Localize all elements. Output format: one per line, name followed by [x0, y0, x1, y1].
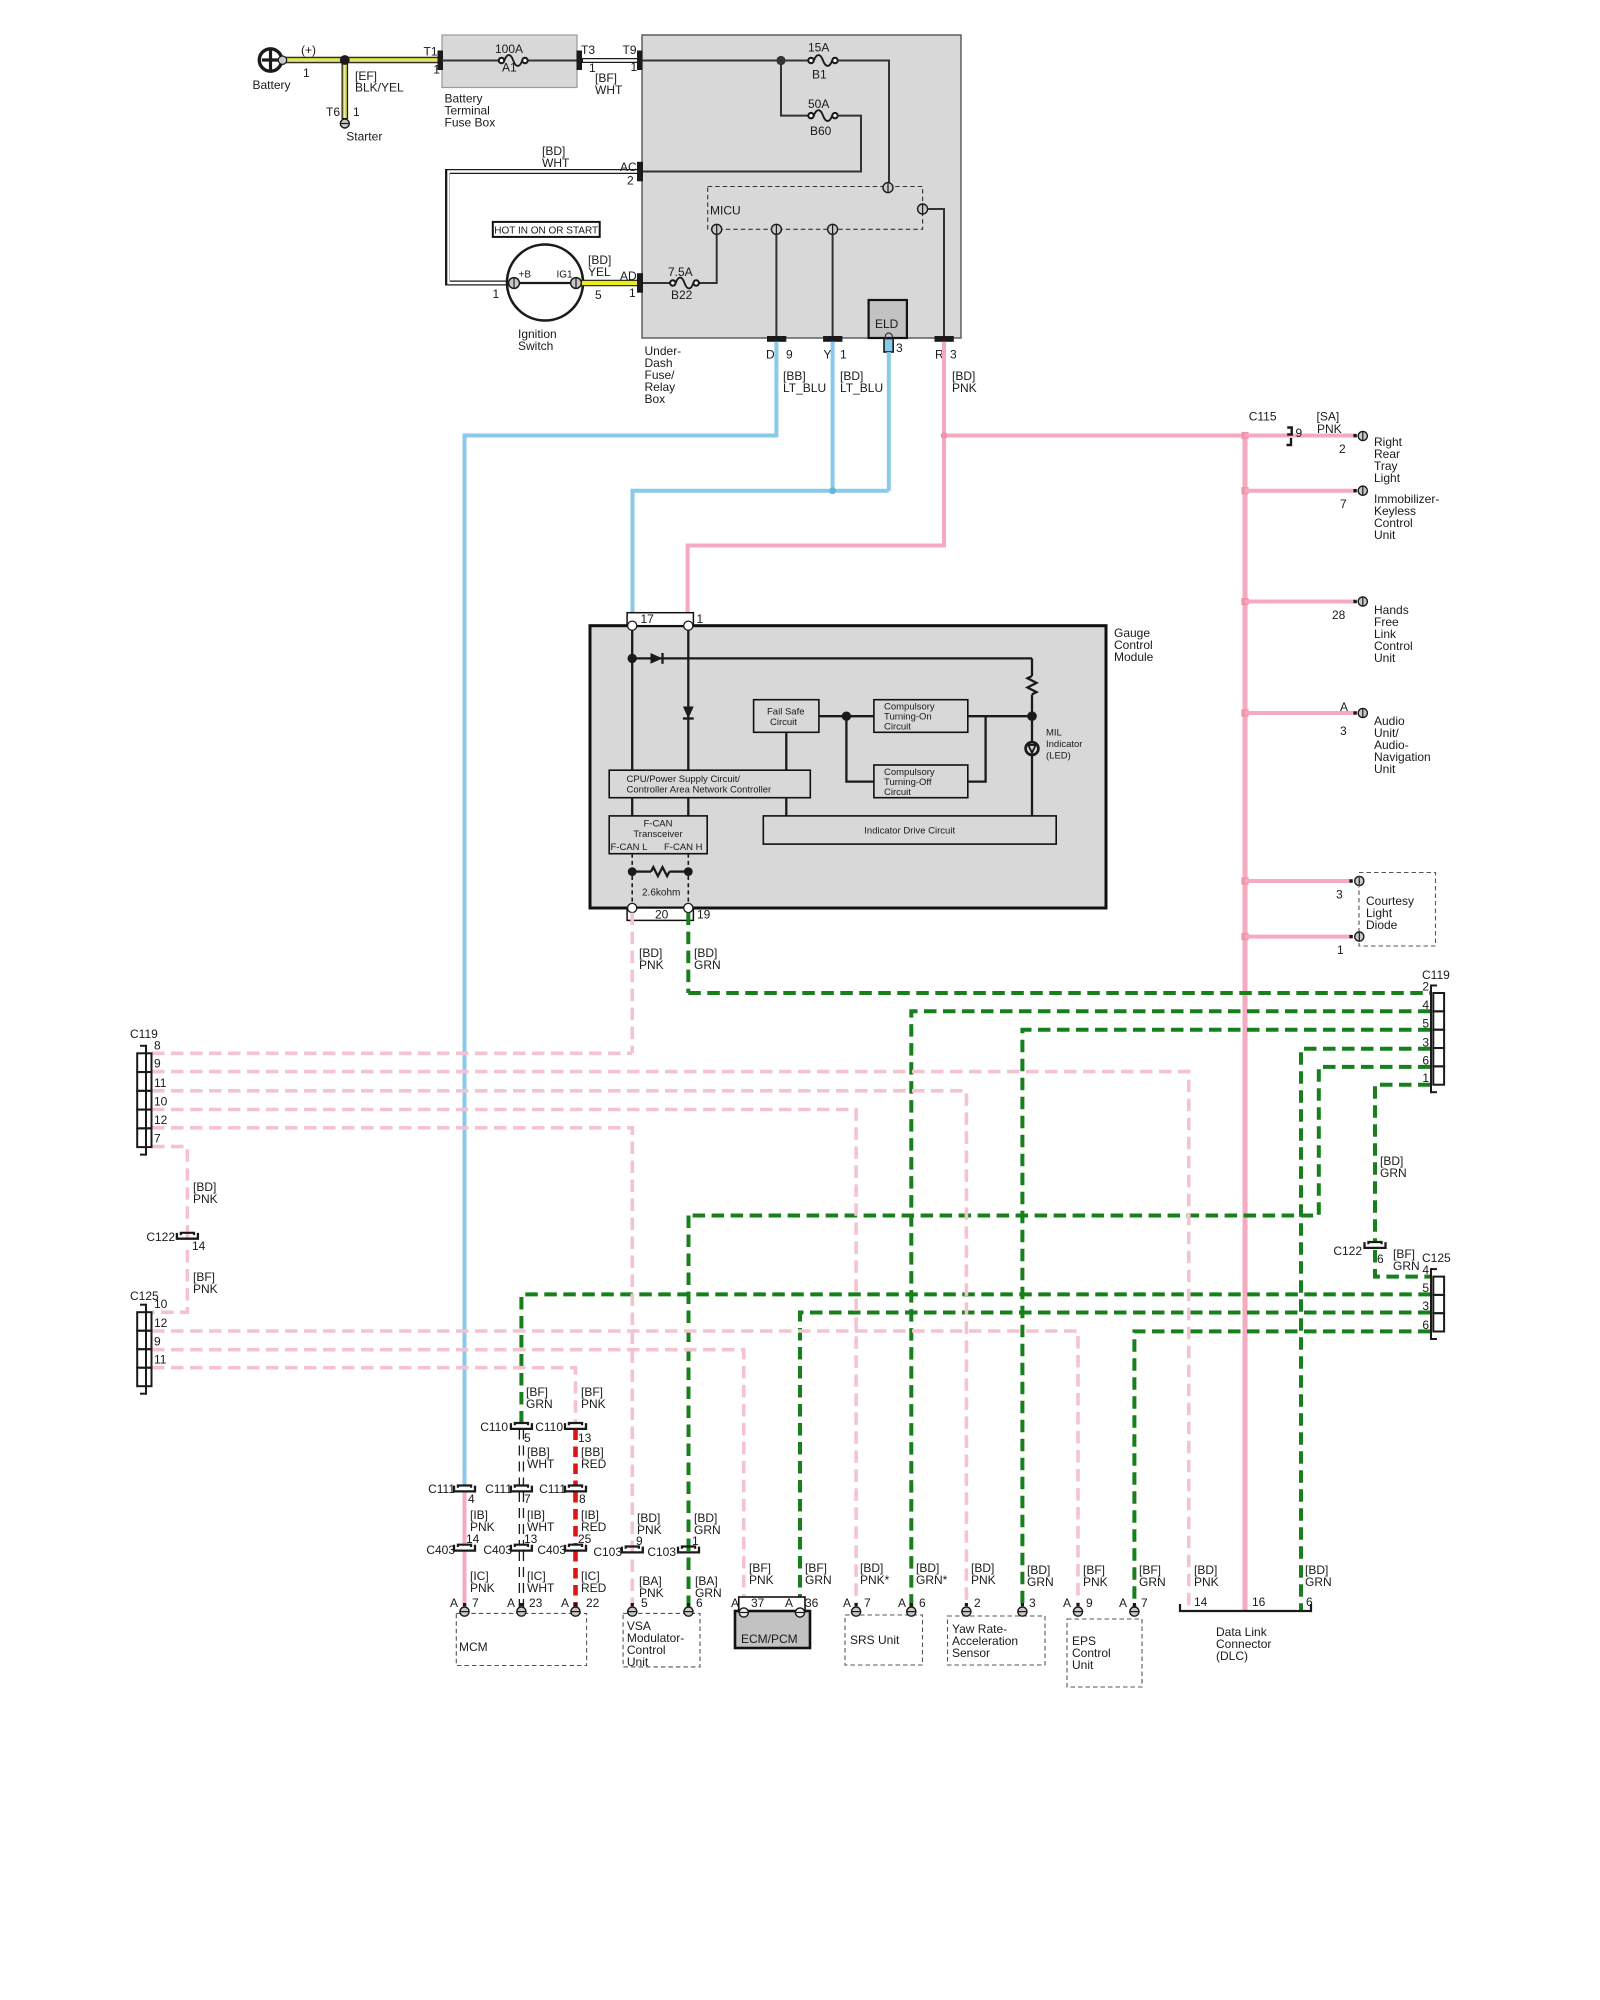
wire gauge pin 20 [BD] PNK dashed: [630, 913, 634, 1053]
wire T9 to 15A fuse: [642, 60, 809, 62]
wire R3 branch to pink bus: [944, 434, 1245, 438]
VSA terminal 5: [631, 1603, 634, 1606]
svg-text:WHT: WHT: [595, 83, 623, 97]
wire to courtesy light diode pin 1: [1245, 935, 1352, 939]
wire C110 5 to C125 pin 5 [BF] GRN: [521, 1294, 1430, 1423]
svg-text:C122: C122: [146, 1230, 175, 1244]
svg-text:5: 5: [1422, 1281, 1429, 1295]
svg-text:Box: Box: [645, 392, 666, 406]
junction pin17 diode: [628, 654, 637, 663]
connector C103 pin 9: [622, 1547, 643, 1553]
svg-text:A1: A1: [502, 61, 517, 75]
svg-text:AD: AD: [620, 269, 637, 283]
yaw terminal 3: [1021, 1603, 1024, 1606]
svg-text:1: 1: [697, 612, 704, 626]
svg-text:PNK: PNK: [1194, 1575, 1219, 1589]
connector C115 pin 9 [SA] PNK: [1287, 428, 1292, 435]
connector C403 pin 13: [511, 1545, 532, 1551]
wire Y1 [BD] LT_BLU: [831, 342, 835, 491]
svg-text:6: 6: [1306, 1595, 1313, 1609]
svg-text:8: 8: [154, 1038, 161, 1052]
wire AC to ignition switch [BD] WHT: [448, 172, 644, 284]
svg-text:PNK: PNK: [1317, 422, 1342, 436]
svg-text:5: 5: [524, 1431, 531, 1445]
terminal hands free pin 28: [1353, 600, 1356, 603]
svg-text:50A: 50A: [808, 97, 829, 111]
svg-text:Battery: Battery: [253, 78, 291, 92]
svg-text:4: 4: [468, 1492, 475, 1506]
wire CPU to indicator drive circuit: [785, 798, 787, 816]
svg-text:9: 9: [154, 1335, 161, 1349]
SRS terminal A6: [910, 1603, 913, 1606]
svg-text:GRN: GRN: [805, 1573, 832, 1587]
SRS terminal A7: [855, 1603, 858, 1606]
wire pin17 to CPU: [631, 630, 633, 770]
wire node to compulsory-off: [846, 716, 874, 781]
svg-text:C103: C103: [647, 1545, 676, 1559]
svg-text:3: 3: [1029, 1596, 1036, 1610]
connector R pin 3: [935, 336, 954, 342]
svg-text:C110: C110: [535, 1420, 563, 1434]
wire C111 4 to C403 14 [IB] PNK: [463, 1492, 467, 1546]
svg-text:+B: +B: [519, 270, 532, 281]
svg-text:1: 1: [840, 348, 847, 362]
pink bus vertical [BD] PNK: [1243, 436, 1248, 1612]
svg-text:B22: B22: [671, 288, 693, 302]
svg-text:A: A: [561, 1596, 569, 1610]
svg-text:B1: B1: [812, 68, 827, 82]
wire pin1 to CPU: [687, 630, 689, 770]
svg-text:PNK: PNK: [193, 1282, 218, 1296]
svg-text:2: 2: [1422, 980, 1429, 994]
terminal courtesy pin 1: [1349, 935, 1352, 938]
svg-text:HOT IN ON OR START: HOT IN ON OR START: [494, 225, 598, 236]
MCM unit box: [456, 1613, 586, 1665]
svg-text:MICU: MICU: [710, 204, 741, 218]
svg-text:GRN: GRN: [1305, 1575, 1332, 1589]
svg-text:C103: C103: [593, 1545, 622, 1559]
wire C119 pin 11 to yaw sensor 2 [BD] PNK: [152, 1091, 966, 1616]
MCM terminal A7: [463, 1603, 466, 1606]
compulsory turning-on circuit box: [874, 700, 968, 733]
svg-text:F-CAN L: F-CAN L: [611, 842, 648, 853]
connector T1: [438, 51, 444, 71]
svg-text:T9: T9: [623, 43, 637, 57]
svg-text:3: 3: [950, 348, 957, 362]
svg-text:GRN*: GRN*: [916, 1573, 948, 1587]
MCM terminal A22: [574, 1603, 577, 1606]
svg-text:9: 9: [1086, 1596, 1093, 1610]
gauge bottom connector pins 20 and 19: [627, 908, 693, 920]
svg-text:SRS Unit: SRS Unit: [850, 1633, 900, 1647]
junction at B1/B60 branch: [776, 56, 785, 65]
svg-text:9: 9: [786, 348, 793, 362]
svg-text:PNK: PNK: [470, 1581, 495, 1595]
svg-text:PNK*: PNK*: [860, 1573, 890, 1587]
wire CPU to F-CAN H: [687, 798, 689, 816]
svg-text:36: 36: [805, 1596, 819, 1610]
svg-text:WHT: WHT: [542, 156, 570, 170]
wire C403 13 to MCM A23 [IC] WHT: [519, 1551, 524, 1612]
svg-text:4: 4: [1422, 1263, 1429, 1277]
wire C119 pin 6 to green bus: [689, 1067, 1431, 1216]
wire ECM A36 to C125 pin 3 [BF] GRN: [800, 1313, 1431, 1610]
svg-text:A: A: [450, 1596, 458, 1610]
svg-text:Indicator: Indicator: [1046, 739, 1082, 750]
wire CPU to F-CAN L: [631, 798, 633, 816]
wire fail safe to compulsory-on: [819, 715, 874, 717]
svg-text:C110: C110: [480, 1420, 508, 1434]
svg-text:22: 22: [586, 1596, 600, 1610]
svg-text:A: A: [1340, 700, 1348, 714]
wire C119 pin 12 to C103 9 / VSA 5 [BD] PNK [BA] PNK: [152, 1128, 632, 1612]
svg-text:MCM: MCM: [459, 1640, 488, 1654]
svg-text:Unit: Unit: [1374, 528, 1396, 542]
svg-text:25: 25: [578, 1532, 592, 1546]
svg-text:4: 4: [1422, 998, 1429, 1012]
ECM terminal A36: [795, 1608, 804, 1617]
svg-text:1: 1: [1422, 1071, 1429, 1085]
wire branch to 50A: [781, 61, 809, 116]
wire MICU to connector D: [775, 235, 777, 337]
svg-text:YEL: YEL: [588, 265, 611, 279]
fuse A1 100A: [442, 60, 499, 62]
wire diode to MIL branch: [632, 657, 1032, 659]
svg-text:1: 1: [493, 287, 500, 301]
compulsory turning-off circuit box: [874, 765, 968, 798]
svg-text:Diode: Diode: [1366, 918, 1398, 932]
svg-text:13: 13: [524, 1532, 538, 1546]
svg-text:7: 7: [864, 1596, 871, 1610]
svg-text:5: 5: [641, 1596, 648, 1610]
resistor R1 vertical: [1031, 658, 1033, 676]
svg-text:7: 7: [472, 1596, 479, 1610]
svg-text:Controller Area Network Contro: Controller Area Network Controller: [627, 784, 772, 795]
svg-text:Unit: Unit: [627, 1655, 649, 1669]
svg-text:3: 3: [1422, 1299, 1429, 1313]
wire EPS A7 to C125 pin 6 [BF] GRN: [1134, 1331, 1430, 1616]
svg-text:A: A: [731, 1596, 739, 1610]
svg-text:10: 10: [154, 1297, 168, 1311]
wire AD to 7.5A fuse to MICU: [643, 282, 670, 284]
junction battery/starter: [340, 55, 350, 65]
wire IG1 to AD [BD] YEL: [581, 280, 642, 287]
svg-text:F-CAN H: F-CAN H: [664, 842, 703, 853]
svg-text:A: A: [898, 1596, 906, 1610]
svg-text:(LED): (LED): [1046, 751, 1071, 762]
svg-text:RED: RED: [581, 1581, 607, 1595]
wire fail safe to CPU: [785, 732, 787, 770]
svg-text:1: 1: [631, 60, 638, 74]
wire to audio unit: [1245, 711, 1357, 715]
wire gauge pin 19 [BD] GRN dashed: [686, 913, 690, 993]
connector Y pin 1: [823, 336, 842, 342]
svg-text:Fail Safe: Fail Safe: [767, 707, 805, 718]
svg-text:MIL: MIL: [1046, 728, 1062, 739]
wire C119 pin 4 to SRS A6: [911, 1011, 1430, 1616]
wire C111 8 to C403 25 [IB] RED: [573, 1492, 578, 1546]
svg-text:2: 2: [974, 1596, 981, 1610]
svg-text:1: 1: [629, 286, 636, 300]
svg-text:Y: Y: [824, 348, 832, 362]
svg-text:20: 20: [655, 908, 669, 922]
EPS terminal A9: [1076, 1603, 1079, 1606]
svg-text:T6: T6: [326, 105, 340, 119]
svg-text:13: 13: [578, 1431, 592, 1445]
EPS terminal A7: [1133, 1603, 1136, 1606]
svg-text:C111: C111: [539, 1482, 566, 1496]
svg-text:Sensor: Sensor: [952, 1646, 990, 1660]
wire junction to MIL LED: [1031, 716, 1033, 742]
svg-text:LT_BLU: LT_BLU: [840, 381, 883, 395]
gauge control module box: [590, 626, 1106, 908]
courtesy light diode box: [1359, 873, 1436, 947]
svg-text:A: A: [1119, 1596, 1127, 1610]
wire ELD3 LT_BLU: [887, 352, 891, 491]
svg-text:12: 12: [154, 1113, 168, 1127]
svg-text:D: D: [766, 348, 775, 362]
svg-text:1: 1: [692, 1534, 699, 1548]
connector C111 pin 4: [454, 1486, 475, 1492]
wire MICU to connector Y: [832, 235, 834, 337]
connector C122 pin 14: [177, 1233, 198, 1239]
connector AD pin 1: [637, 273, 643, 293]
svg-text:RED: RED: [581, 1457, 607, 1471]
wire LT_BLU to gauge pin 17: [633, 491, 889, 621]
wire C111 7 to C403 13 [IB] WHT: [519, 1492, 524, 1546]
svg-text:GRN: GRN: [1139, 1575, 1166, 1589]
connector D pin 9: [767, 336, 786, 342]
wire green bus to C103 1 / VSA 6 [BD] GRN: [687, 1216, 691, 1612]
MICU terminal to D: [771, 224, 781, 234]
wire C119 pin 8 to gauge pin 20: [152, 1052, 632, 1056]
svg-text:3: 3: [1336, 888, 1343, 902]
junction fail safe node: [842, 712, 851, 721]
svg-text:C403: C403: [483, 1543, 512, 1557]
svg-text:A: A: [1063, 1596, 1071, 1610]
svg-text:Starter: Starter: [346, 130, 382, 144]
data link connector DLC: [1180, 1604, 1311, 1611]
svg-text:17: 17: [641, 612, 655, 626]
svg-text:BLK/YEL: BLK/YEL: [355, 81, 404, 95]
wire C125 pin 12 to EPS A9 [BF] PNK: [152, 1331, 1078, 1616]
svg-text:PNK: PNK: [193, 1192, 218, 1206]
MIL indicator LED: [1026, 742, 1039, 755]
svg-text:Circuit: Circuit: [770, 717, 797, 728]
wire 15A to MICU: [838, 61, 889, 184]
wire to starter: [341, 60, 348, 119]
svg-text:T1: T1: [424, 45, 438, 59]
fuse B60 50A: [808, 113, 813, 118]
svg-text:1: 1: [303, 66, 310, 80]
gauge top connector pins 17 and 1: [627, 613, 693, 626]
svg-text:6: 6: [1422, 1318, 1429, 1332]
wire C119 pin 7 to C122 14 [BD] PNK: [152, 1147, 187, 1242]
svg-text:9: 9: [1296, 426, 1303, 440]
svg-text:14: 14: [192, 1239, 206, 1253]
SRS unit box: [845, 1615, 923, 1665]
terminal courtesy pin 3: [1349, 879, 1352, 882]
CPU/power supply circuit box: [609, 770, 810, 798]
svg-text:Circuit: Circuit: [884, 787, 911, 798]
svg-text:12: 12: [154, 1316, 168, 1330]
fuse B1 15A: [808, 58, 813, 63]
svg-text:GRN: GRN: [694, 958, 721, 972]
svg-text:10: 10: [154, 1095, 168, 1109]
wire C122 6 to C125 pin 4 [BF] GRN: [1375, 1250, 1431, 1277]
svg-text:C115: C115: [1249, 410, 1277, 424]
svg-text:Switch: Switch: [518, 339, 553, 353]
MICU dashed box: [708, 187, 923, 230]
wire to courtesy light diode pin 3: [1245, 879, 1352, 883]
svg-text:6: 6: [919, 1596, 926, 1610]
F-CAN L pigtail: [631, 854, 633, 867]
svg-text:9: 9: [636, 1534, 643, 1548]
wire compulsory-off output: [968, 716, 986, 781]
wire C403 25 to MCM A22 [IC] RED: [573, 1551, 578, 1612]
svg-text:6: 6: [1422, 1053, 1429, 1067]
battery terminal fuse box: [442, 35, 577, 88]
F-CAN H pigtail: [687, 854, 689, 867]
wire C119 pin 1 to C122 6 [BD] GRN: [1375, 1085, 1431, 1242]
terminal audio unit pin A3: [1353, 711, 1356, 714]
svg-text:16: 16: [1252, 1595, 1266, 1609]
hot in on or start tag: [493, 222, 600, 237]
wire C122 14 to C125 pin 10 [BF] PNK: [152, 1250, 187, 1312]
ECM/PCM unit box: [735, 1611, 810, 1648]
indicator drive circuit box: [763, 816, 1056, 844]
wire C110 5 to C111 7 [BB] WHT: [519, 1430, 524, 1487]
svg-text:GRN: GRN: [526, 1397, 553, 1411]
wire C119 pin 3 to DLC 6 [BD] GRN: [1301, 1049, 1431, 1611]
wire C125 pin 11 to C110 13 [BF] PNK: [152, 1368, 576, 1424]
svg-text:GRN: GRN: [1380, 1166, 1407, 1180]
fuse B22 7.5A: [670, 280, 675, 285]
ELD unit: [869, 300, 907, 338]
connector T9: [637, 51, 643, 71]
svg-text:3: 3: [1340, 724, 1347, 738]
svg-text:Unit: Unit: [1072, 1658, 1094, 1672]
svg-text:9: 9: [154, 1057, 161, 1071]
svg-text:6: 6: [696, 1596, 703, 1610]
junction LT_BLU: [829, 487, 836, 494]
wire C403 14 to MCM A7 [IC] PNK: [463, 1551, 467, 1612]
VSA terminal 6: [687, 1603, 690, 1606]
svg-text:37: 37: [751, 1596, 765, 1610]
svg-text:PNK: PNK: [581, 1397, 606, 1411]
svg-text:6: 6: [1377, 1252, 1384, 1266]
junction MIL node: [1027, 711, 1037, 721]
MICU terminal to fuse B22: [712, 224, 722, 234]
wire to immobilizer-keyless control unit: [1245, 489, 1357, 493]
svg-text:1: 1: [433, 63, 440, 77]
svg-text:Transceiver: Transceiver: [633, 829, 682, 840]
svg-text:8: 8: [579, 1492, 586, 1506]
connector C110 pin 5: [511, 1423, 532, 1429]
svg-text:C403: C403: [426, 1543, 455, 1557]
svg-text:WHT: WHT: [527, 1457, 555, 1471]
diode D2 down: [683, 707, 694, 719]
wire C119 pin 5 to yaw sensor 3: [1022, 1030, 1430, 1616]
svg-text:15A: 15A: [808, 41, 829, 55]
wire to right rear tray light: [1245, 434, 1357, 438]
svg-text:5: 5: [1422, 1016, 1429, 1030]
svg-text:11: 11: [154, 1076, 167, 1090]
svg-text:B60: B60: [810, 124, 832, 138]
svg-text:A: A: [507, 1596, 515, 1610]
svg-text:C111: C111: [428, 1482, 455, 1496]
MCM terminal A23: [520, 1603, 523, 1606]
svg-text:14: 14: [1194, 1595, 1208, 1609]
ignition switch: [507, 245, 583, 321]
F-CAN transceiver box: [609, 816, 707, 854]
terminal right rear tray light pin 2: [1353, 434, 1356, 437]
wire C125 pin 9 to ECM A37 [BF] PNK: [152, 1350, 744, 1609]
svg-text:PNK: PNK: [971, 1573, 996, 1587]
svg-text:2.6kohm: 2.6kohm: [642, 888, 680, 899]
wire battery positive to T1 [EF] BLK/YEL: [283, 57, 440, 64]
connector C103 pin 1: [678, 1547, 699, 1553]
connector C111 pin 7: [511, 1486, 532, 1492]
svg-text:C111: C111: [485, 1482, 512, 1496]
wire C110 13 to C111 8 [BB] RED: [573, 1430, 578, 1487]
wire C119 pin 9 to DLC 14 [BD] PNK: [152, 1072, 1189, 1611]
svg-text:C403: C403: [537, 1543, 566, 1557]
svg-text:ECM/PCM: ECM/PCM: [741, 1632, 798, 1646]
svg-text:LT_BLU: LT_BLU: [783, 381, 826, 395]
svg-text:Module: Module: [1114, 650, 1154, 664]
fail safe circuit box: [754, 700, 819, 733]
EPS control unit box: [1067, 1619, 1142, 1687]
terminal immobilizer pin 7: [1353, 489, 1356, 492]
wire compulsory-on to MIL node: [968, 715, 1032, 717]
yaw rate-acceleration sensor box: [948, 1616, 1046, 1665]
resistor 2.6kohm: [636, 870, 651, 872]
svg-text:1: 1: [1337, 943, 1344, 957]
svg-text:PNK: PNK: [952, 381, 977, 395]
ECM/PCM pin box: [739, 1597, 805, 1611]
svg-text:Unit: Unit: [1374, 762, 1396, 776]
ECM terminal A37: [739, 1608, 748, 1617]
wire T3 to T9 [BF] WHT: [582, 58, 642, 63]
svg-text:GRN: GRN: [1027, 1575, 1054, 1589]
svg-text:PNK: PNK: [1083, 1575, 1108, 1589]
svg-text:3: 3: [896, 341, 903, 355]
svg-text:A: A: [843, 1596, 851, 1610]
svg-text:2: 2: [627, 174, 634, 188]
svg-text:C122: C122: [1333, 1244, 1362, 1258]
starter terminal T6: [340, 119, 349, 128]
wire 50A to AC: [643, 116, 861, 172]
svg-text:2: 2: [1339, 442, 1346, 456]
svg-text:Fuse Box: Fuse Box: [445, 116, 496, 130]
svg-text:IG1: IG1: [557, 270, 574, 281]
svg-text:7: 7: [524, 1492, 531, 1506]
under-dash fuse/relay box: [642, 35, 961, 338]
wire to hands free link control unit: [1245, 600, 1357, 604]
svg-text:100A: 100A: [495, 42, 523, 56]
battery B1: [259, 49, 281, 71]
connector C122 pin 6: [1365, 1242, 1386, 1248]
svg-text:7: 7: [1340, 497, 1347, 511]
MICU terminal top: [883, 183, 893, 193]
connector C403 pin 14: [454, 1545, 475, 1551]
svg-text:PNK: PNK: [639, 958, 664, 972]
connector C403 pin 25: [565, 1545, 586, 1551]
svg-text:WHT: WHT: [527, 1581, 555, 1595]
wire LED to indicator drive circuit: [1031, 755, 1033, 816]
diode D1 right: [651, 653, 663, 664]
